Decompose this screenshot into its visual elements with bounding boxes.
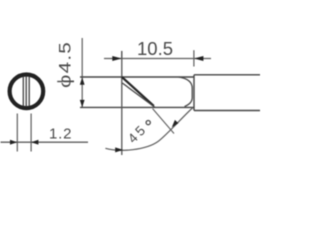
angle dimension arc (45deg)	[105, 108, 193, 151]
body bottom edge	[194, 110, 260, 112]
arc arrow at vertical line	[115, 147, 123, 152]
arc arrow at 45deg face line	[172, 120, 179, 127]
extension line right (10.5)	[193, 50, 195, 66]
knife cut face upper line	[122, 77, 154, 106]
arrow left (10.5)	[112, 56, 122, 61]
arrow down (phi 4.5)	[80, 100, 85, 107]
extension line left (1.2 dim)	[16, 114, 18, 152]
phi 4.5 dimension vertical line	[81, 38, 83, 107]
svg-text:1.2: 1.2	[49, 126, 72, 143]
svg-text:10.5: 10.5	[137, 38, 173, 59]
arrow up (phi 4.5)	[80, 77, 85, 84]
arrow left (1.2)	[10, 140, 17, 145]
extension line left (10.5)	[121, 51, 123, 59]
arrow right (10.5)	[194, 56, 204, 61]
body top edge	[194, 74, 260, 76]
heel curve (cut boundary on cylinder)	[179, 77, 193, 107]
phi glyph stem extension	[57, 81, 62, 83]
extension line right (1.2 dim)	[30, 114, 32, 152]
tip left vertical edge + extension lines	[121, 51, 123, 155]
dim line 10.5	[104, 58, 211, 60]
knife edge face lines (front view)	[23, 76, 29, 106]
dimension line 1.2	[1, 141, 89, 143]
degree symbol of 45 label	[146, 121, 150, 125]
45 degree cut face extension line	[153, 109, 174, 134]
knife cut face lower line	[122, 83, 155, 107]
tip top edge with extension (phi4.5 top)	[80, 76, 194, 78]
front view ring (tip end circle)	[10, 75, 44, 109]
arrow right (1.2)	[31, 140, 38, 145]
step vertical (tip/body junction)	[193, 75, 195, 111]
tip bottom edge with extension (phi4.5 bottom)	[80, 106, 194, 108]
